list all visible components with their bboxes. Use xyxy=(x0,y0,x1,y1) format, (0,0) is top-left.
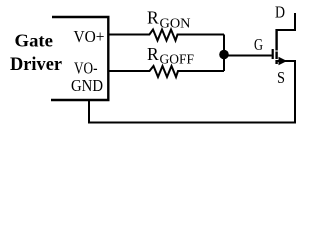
svg-text:Gate: Gate xyxy=(15,31,54,51)
svg-text:VO-: VO- xyxy=(74,59,98,78)
svg-text:Driver: Driver xyxy=(10,55,62,75)
svg-text:R: R xyxy=(147,8,159,28)
svg-text:GOFF: GOFF xyxy=(160,53,195,68)
svg-text:GND: GND xyxy=(71,76,103,95)
svg-text:D: D xyxy=(275,3,285,22)
svg-text:S: S xyxy=(277,68,285,87)
svg-text:VO+: VO+ xyxy=(74,27,105,46)
svg-text:GON: GON xyxy=(160,17,191,32)
svg-text:R: R xyxy=(147,44,159,64)
svg-text:G: G xyxy=(254,35,263,54)
